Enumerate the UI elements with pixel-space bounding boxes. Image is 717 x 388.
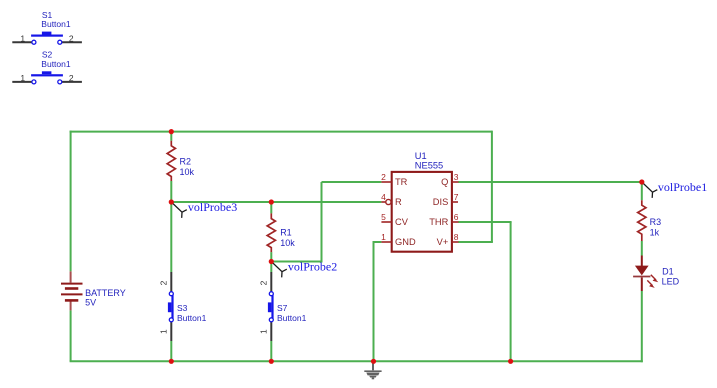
junction node THR bottom xyxy=(508,359,513,364)
svg-text:7: 7 xyxy=(454,192,459,202)
svg-text:D1: D1 xyxy=(662,266,674,276)
svg-text:1: 1 xyxy=(381,232,386,242)
svg-text:2: 2 xyxy=(69,73,74,83)
probe volProbe2 xyxy=(271,260,337,278)
svg-text:1: 1 xyxy=(258,329,268,334)
svg-text:R1: R1 xyxy=(280,228,292,238)
svg-text:10k: 10k xyxy=(180,167,195,177)
wire left vertical lower (battery - to bottom net) xyxy=(70,310,72,361)
svg-text:volProbe2: volProbe2 xyxy=(288,260,337,274)
svg-text:TR: TR xyxy=(395,177,408,187)
svg-text:R: R xyxy=(395,197,402,207)
pushbutton S2 Button1 xyxy=(12,50,82,84)
svg-text:Button1: Button1 xyxy=(41,59,71,69)
svg-text:8: 8 xyxy=(454,232,459,242)
U1 pin 7 DIS lead xyxy=(433,192,459,207)
wire TR riser xyxy=(321,182,323,263)
IC U1 NE555 body xyxy=(392,151,452,252)
U1 pin 2 TR lead xyxy=(381,172,408,187)
junction node top of R1 xyxy=(269,199,274,204)
wire R2 bottom stub xyxy=(170,181,172,202)
wire bottom horizontal ground net xyxy=(70,360,643,362)
ground symbol xyxy=(364,361,381,379)
junction node top of R2 xyxy=(169,129,174,134)
wire GND riser xyxy=(373,242,375,361)
svg-text:Q: Q xyxy=(441,177,448,187)
svg-text:GND: GND xyxy=(395,237,416,247)
junction node S3 bottom xyxy=(169,359,174,364)
wire top horizontal (battery+ to V+ riser) xyxy=(70,131,492,133)
U1 pin 5 CV lead xyxy=(381,212,409,227)
svg-text:6: 6 xyxy=(454,212,459,222)
junction node volProbe3 xyxy=(169,199,174,204)
wire S7 top stub xyxy=(270,262,272,273)
probe volProbe1 xyxy=(642,180,707,198)
wire V+ riser xyxy=(491,131,493,242)
svg-text:4: 4 xyxy=(381,192,386,202)
svg-text:2: 2 xyxy=(158,280,168,285)
svg-text:R3: R3 xyxy=(650,217,662,227)
svg-text:5: 5 xyxy=(381,212,386,222)
wire R3 to LED stub xyxy=(641,241,643,256)
svg-text:Button1: Button1 xyxy=(277,313,307,323)
junction node volProbe2 xyxy=(269,259,274,264)
svg-text:1: 1 xyxy=(20,33,25,43)
wire LED bottom stub xyxy=(641,291,643,362)
pushbutton S7 Button1 (vertical) xyxy=(258,272,306,341)
svg-text:10k: 10k xyxy=(280,238,295,248)
svg-text:volProbe3: volProbe3 xyxy=(188,200,237,214)
svg-text:LED: LED xyxy=(662,276,680,286)
wire GND pin horizontal xyxy=(373,241,382,243)
svg-text:Button1: Button1 xyxy=(41,19,71,29)
svg-text:S7: S7 xyxy=(277,303,288,313)
svg-text:S3: S3 xyxy=(177,303,188,313)
svg-text:1: 1 xyxy=(20,73,25,83)
U1 pin 1 GND lead xyxy=(381,232,416,247)
wire TR horizontal to pin 2 xyxy=(322,181,382,183)
battery BATTERY 5V xyxy=(61,271,126,310)
resistor R3 1k xyxy=(638,200,661,241)
svg-text:3: 3 xyxy=(454,172,459,182)
wire left vertical upper (to battery +) xyxy=(70,131,72,272)
pushbutton S1 Button1 xyxy=(12,10,82,44)
svg-text:DIS: DIS xyxy=(433,197,449,207)
resistor R2 10k xyxy=(167,141,194,181)
svg-text:R2: R2 xyxy=(180,157,192,167)
svg-text:CV: CV xyxy=(395,217,409,227)
svg-text:5V: 5V xyxy=(85,297,96,307)
wire volProbe2 node horizontal xyxy=(271,261,322,263)
wire S3 bottom stub xyxy=(170,341,172,362)
wire R1 top stub xyxy=(270,202,272,213)
svg-text:Button1: Button1 xyxy=(177,313,207,323)
U1 pin 3 Q lead xyxy=(441,172,459,187)
svg-text:2: 2 xyxy=(258,280,268,285)
svg-text:V+: V+ xyxy=(437,237,449,247)
svg-text:2: 2 xyxy=(69,33,74,43)
wire S7 bottom stub xyxy=(270,341,272,362)
wire R1 bottom stub xyxy=(270,252,272,261)
wire THR riser xyxy=(510,222,512,361)
wire V+ horizontal to pin 8 xyxy=(458,241,493,243)
LED D1 xyxy=(633,256,680,292)
wire S3 top stub xyxy=(170,202,172,272)
wire THR horizontal from pin 6 xyxy=(458,221,511,223)
svg-text:2: 2 xyxy=(381,172,386,182)
resistor R1 10k xyxy=(267,213,295,252)
U1 pin 8 V+ lead xyxy=(437,232,459,247)
wire R2 top stub xyxy=(170,131,172,141)
pushbutton S3 Button1 (vertical) xyxy=(158,272,206,341)
junction node S7 bottom xyxy=(269,359,274,364)
wire LED branch top stub xyxy=(641,182,643,200)
svg-text:1k: 1k xyxy=(650,227,660,237)
U1 pin 6 THR lead xyxy=(429,212,459,227)
probe volProbe3 xyxy=(171,200,237,218)
junction node ground xyxy=(371,359,376,364)
svg-text:THR: THR xyxy=(429,217,448,227)
svg-text:BATTERY: BATTERY xyxy=(85,288,126,298)
U1 pin 4 R lead with bubble xyxy=(381,192,402,207)
wire Q output horizontal xyxy=(458,181,642,183)
wire volProbe3 node horizontal to pin R xyxy=(171,201,381,203)
svg-text:1: 1 xyxy=(158,329,168,334)
svg-text:volProbe1: volProbe1 xyxy=(658,180,707,194)
junction node volProbe1 xyxy=(639,179,644,184)
svg-text:NE555: NE555 xyxy=(415,160,443,170)
